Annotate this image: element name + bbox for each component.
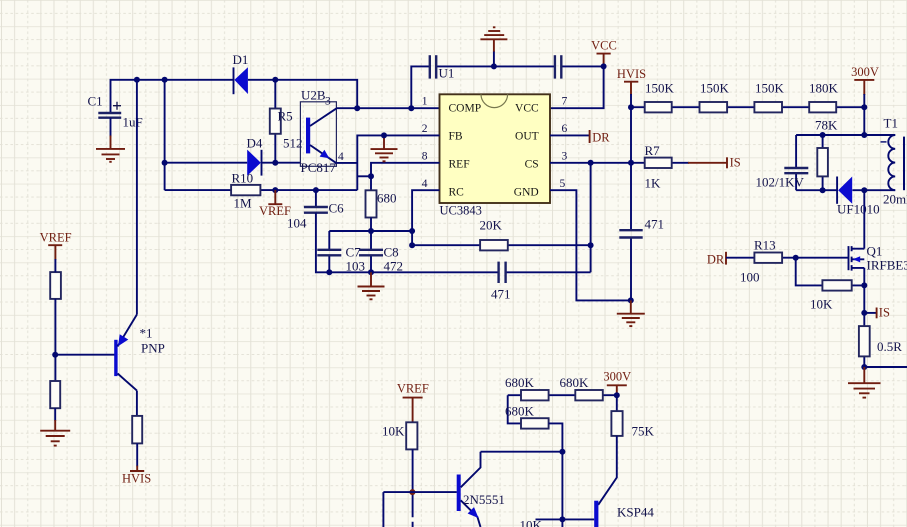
label UF1010 [837, 202, 880, 217]
label 78K [815, 118, 838, 133]
svg-text:R5: R5 [278, 109, 293, 124]
resistor R7 [645, 158, 672, 168]
junction source ground node [861, 364, 867, 370]
junction rail x164.6 [162, 77, 168, 83]
resistor 0.5R [859, 326, 870, 356]
wire GND pin route to ground [550, 190, 631, 300]
svg-text:DR: DR [592, 131, 610, 145]
label 150K first [645, 81, 675, 96]
pin number 1 [422, 96, 428, 108]
label 75K [632, 424, 655, 439]
wire HVIS vertical [630, 94, 632, 300]
resistor 150K second [700, 102, 728, 112]
label 680K second [560, 375, 590, 390]
pin number 3 U2B [325, 96, 331, 108]
label 512 [283, 136, 303, 151]
svg-text:D4: D4 [247, 136, 263, 151]
svg-text:GND: GND [514, 187, 539, 199]
pin number 2 [422, 123, 428, 135]
svg-text:VREF: VREF [397, 382, 429, 396]
junction y231 at RC vertical [409, 228, 415, 234]
junction snubber top T1 [861, 132, 867, 138]
svg-text:78K: 78K [815, 118, 838, 133]
label D1 [233, 52, 249, 67]
junction pin1 at rail corner [354, 105, 360, 111]
wire Q1 source vertical [863, 268, 865, 367]
wire 75K to KSP44 collector [598, 436, 617, 505]
label C6 [329, 201, 345, 216]
power port VREF left [40, 230, 72, 259]
junction C6 top [313, 187, 319, 193]
transistor Q1 IRFBE30 [849, 246, 865, 271]
wire base of PNP [55, 354, 114, 356]
label 472 [384, 259, 404, 274]
wire top rail from D1 to pin1 corner [248, 80, 357, 108]
wire C1 to ground [110, 118, 112, 137]
svg-text:R7: R7 [645, 143, 661, 158]
label 1K [645, 176, 662, 191]
diode UF1010 [837, 177, 852, 204]
capacitor C7 [317, 231, 341, 272]
resistor R5 [270, 80, 281, 163]
label C1 [88, 94, 103, 109]
wire pin1 line [336, 107, 439, 109]
svg-text:*1: *1 [140, 326, 153, 341]
wire 680 bottom stub [370, 218, 372, 232]
junction 10K at source [861, 282, 867, 288]
wire gate node to 10K [796, 258, 865, 286]
wire D4 line [165, 162, 301, 164]
wire 680K third to vertical [549, 423, 563, 527]
wire y231 [329, 230, 412, 232]
svg-text:R13: R13 [754, 238, 776, 253]
wire divider middle [54, 259, 56, 381]
wire snubber top [796, 134, 895, 136]
junction C7 bottom [326, 269, 332, 275]
svg-text:3: 3 [562, 151, 568, 163]
port IS right [864, 306, 890, 320]
resistor R13 [754, 253, 782, 263]
label D4 [247, 136, 263, 151]
junction HVIS at divider [628, 104, 634, 110]
IC pin label RC [449, 187, 465, 199]
svg-text:20K: 20K [480, 218, 503, 233]
wire 150K divider chain [631, 106, 864, 108]
label Q1 [867, 244, 883, 259]
junction C8 bottom ground [368, 269, 374, 275]
svg-text:KSP44: KSP44 [617, 505, 654, 520]
wire base line 2N5551 [383, 491, 456, 493]
label KSP44 [617, 505, 654, 520]
resistor 78K [817, 135, 828, 190]
resistor VREF divider lower [50, 381, 60, 408]
label R10 [232, 170, 254, 185]
junction gate node [793, 255, 799, 261]
label 1M [234, 196, 253, 211]
junction collector at vertical [559, 449, 565, 455]
wire DR to R13 to gate [726, 257, 848, 259]
junction R5 bottom / D4 cathode [272, 160, 278, 166]
svg-text:300V: 300V [603, 370, 631, 384]
power port 300V bottom [603, 370, 631, 396]
IC U1 UC3843 body [440, 94, 551, 203]
power port HVIS top [617, 67, 646, 95]
resistor R10 [231, 185, 260, 195]
junction FB ground [381, 132, 387, 138]
pin number 7 [562, 96, 568, 108]
junction on rail at PNP feed [134, 77, 140, 83]
wire U1 branch and top cap rail [411, 66, 603, 108]
resistor below PNP [132, 416, 142, 444]
svg-text:VREF: VREF [40, 230, 72, 244]
resistor 75K [611, 411, 622, 436]
junction 300V bottom node [614, 392, 620, 398]
capacitor C1 [98, 102, 121, 118]
svg-text:C1: C1 [88, 94, 103, 109]
wire 680K left link [508, 395, 521, 423]
capacitor 471 right [619, 230, 642, 237]
ground below Q1 [848, 367, 881, 398]
svg-text:FB: FB [449, 131, 463, 143]
svg-text:HVIS: HVIS [122, 471, 151, 485]
svg-text:PNP: PNP [141, 341, 165, 356]
wire from source node to right edge [864, 366, 907, 368]
label IRFBE30 [867, 258, 907, 273]
resistor 20K [480, 240, 508, 250]
label 471 lower [491, 287, 511, 302]
junction rail R5 top [272, 77, 278, 83]
resistor 680K third [521, 418, 549, 428]
svg-text:IS: IS [730, 156, 741, 170]
junction RC vertical at 20K wire [409, 242, 415, 248]
resistor 150K third [754, 102, 782, 112]
transistor Q KSP44 [594, 501, 598, 527]
svg-text:3: 3 [325, 96, 331, 108]
wire 10K to base line [412, 449, 414, 527]
junction IS at source [861, 310, 867, 316]
svg-text:U1: U1 [439, 66, 455, 81]
svg-text:2N5551: 2N5551 [463, 492, 505, 507]
svg-text:T1: T1 [884, 116, 898, 131]
resistor 10K bottom [406, 422, 417, 449]
svg-text:300V: 300V [851, 65, 879, 79]
svg-text:103: 103 [346, 259, 366, 274]
label UC3843 [440, 204, 482, 218]
junction base node maroon [409, 489, 415, 495]
svg-text:OUT: OUT [515, 131, 539, 143]
svg-text:REF: REF [449, 159, 470, 171]
svg-text:1K: 1K [645, 176, 662, 191]
svg-text:150K: 150K [755, 81, 785, 96]
svg-text:IS: IS [879, 306, 890, 320]
wire 680K series row [508, 394, 617, 396]
svg-text:1: 1 [422, 96, 428, 108]
svg-text:680K: 680K [560, 375, 590, 390]
capacitor right of ground [555, 55, 561, 78]
label 680K first [505, 375, 535, 390]
label 0.5R [877, 339, 902, 354]
IC pin label VCC [515, 103, 539, 115]
svg-text:COMP: COMP [449, 103, 482, 115]
svg-text:0.5R: 0.5R [877, 339, 902, 354]
ground right of UC3843 [617, 300, 645, 326]
svg-text:680: 680 [377, 191, 397, 206]
label 10K gate [810, 297, 833, 312]
ground below C1 [96, 136, 125, 162]
transformer T1 primary [881, 135, 905, 190]
wire 2N5551 collector line [481, 451, 563, 453]
wire CS pin line to R7 and IS [550, 162, 727, 164]
label 180K [809, 81, 839, 96]
svg-text:VCC: VCC [591, 39, 617, 53]
IC pin label OUT [515, 131, 539, 143]
svg-text:8: 8 [422, 151, 428, 163]
wire jog at y176 [357, 175, 371, 177]
wire vertical feed to PNP [136, 80, 138, 315]
wire C6 bottom to ground rail [316, 213, 591, 273]
junction R10 right / VREF [272, 187, 278, 193]
junction snubber top 78K [820, 132, 826, 138]
svg-text:102/1KV: 102/1KV [756, 175, 805, 190]
capacitor C6 [304, 190, 328, 213]
junction snubber bottom T1 [861, 187, 867, 193]
ground on FB line [371, 135, 398, 161]
label 680K third [505, 404, 535, 419]
svg-text:IRFBE30: IRFBE30 [867, 258, 907, 273]
svg-text:150K: 150K [645, 81, 675, 96]
svg-text:C8: C8 [384, 245, 399, 260]
resistor 680K second [575, 390, 603, 400]
svg-text:DR: DR [707, 253, 725, 267]
junction D4 line at left vertical [162, 160, 168, 166]
svg-text:PC817: PC817 [301, 160, 337, 175]
IC pin label REF [449, 159, 470, 171]
svg-text:1uF: 1uF [123, 115, 143, 130]
wire base tail down [382, 492, 384, 527]
svg-text:512: 512 [283, 136, 303, 151]
junction divider base node [52, 352, 58, 358]
svg-text:UC3843: UC3843 [440, 204, 482, 218]
label 150K second [700, 81, 730, 96]
diode D1 [234, 67, 248, 94]
svg-text:2: 2 [422, 123, 428, 135]
label 1uF [123, 115, 143, 130]
wire RC pin to 20K [412, 190, 439, 245]
svg-text:4: 4 [338, 151, 344, 163]
pin number 4 [422, 178, 428, 190]
IC pin label GND [514, 187, 539, 199]
wire 300V node to 75K [616, 395, 618, 411]
svg-text:HVIS: HVIS [617, 67, 646, 81]
port DR left [707, 252, 726, 267]
svg-text:104: 104 [287, 216, 307, 231]
label 150K third [755, 81, 785, 96]
capacitor C8 [359, 231, 383, 272]
label PC817 [301, 160, 337, 175]
svg-text:6: 6 [562, 123, 568, 135]
junction CS at vertical [588, 160, 594, 166]
transistor Q 2N5551 [457, 452, 481, 527]
diode D4 [247, 150, 261, 176]
pin number 3 [562, 151, 568, 163]
svg-text:471: 471 [645, 217, 665, 232]
power port VREF upper [259, 190, 291, 218]
label C8 [384, 245, 399, 260]
svg-text:RC: RC [449, 187, 465, 199]
label C7 [346, 245, 362, 260]
wire R10 line [165, 189, 358, 191]
svg-text:100: 100 [740, 270, 760, 285]
label 104 [287, 216, 307, 231]
junction VCC [601, 63, 607, 69]
junction divider right [861, 104, 867, 110]
svg-text:10K: 10K [382, 424, 405, 439]
svg-text:150K: 150K [700, 81, 730, 96]
svg-text:10K: 10K [810, 297, 833, 312]
label 471 right [645, 217, 665, 232]
svg-text:20mH: 20mH [883, 192, 907, 207]
wire T1 to Q1 drain [863, 190, 865, 249]
junction 680 bottom [368, 228, 374, 234]
svg-text:VCC: VCC [515, 103, 539, 115]
label 10K bottom [382, 424, 405, 439]
wire left vertical x164.6 [164, 80, 166, 190]
svg-text:10K: 10K [520, 518, 543, 527]
transistor Q PNP [114, 315, 137, 391]
svg-text:180K: 180K [809, 81, 839, 96]
svg-text:75K: 75K [632, 424, 655, 439]
svg-text:1M: 1M [234, 196, 253, 211]
label PNP [141, 341, 165, 356]
resistor 680K first [521, 390, 549, 400]
svg-text:U2B: U2B [301, 88, 326, 103]
wire KSP44 base line [536, 518, 595, 520]
label *1 [140, 326, 153, 341]
wire resistor to HVIS port [136, 443, 138, 466]
svg-text:CS: CS [525, 159, 539, 171]
wire snubber bottom [796, 189, 895, 191]
label R7 [645, 143, 661, 158]
label 20mH [883, 192, 907, 207]
pin number 4 U2B [338, 151, 344, 163]
junction zigzag 680 top [368, 173, 374, 179]
wire REF to 680 resistor [371, 163, 440, 191]
wire snubber left with cap gap [795, 135, 797, 190]
wire OUT pin to DR [550, 134, 590, 136]
optocoupler U2B PC817 [300, 102, 336, 167]
wire U2B pin4 to zigzag [336, 162, 357, 164]
svg-text:Q1: Q1 [867, 244, 883, 259]
ground below C7 C8 rail [358, 272, 385, 299]
pin number 6 [562, 123, 568, 135]
label 10K clipped [520, 518, 543, 527]
ground below divider [40, 420, 70, 446]
junction CS at HVIS vertical [628, 160, 634, 166]
capacitor U1 [430, 55, 436, 78]
svg-text:UF1010: UF1010 [837, 202, 880, 217]
svg-text:471: 471 [491, 287, 511, 302]
wire CS vertical [590, 163, 592, 272]
resistor VREF divider upper [50, 272, 61, 299]
port DR at OUT [590, 130, 611, 145]
resistor 10K gate [822, 280, 851, 290]
junction base KSP44 [559, 516, 565, 522]
label U2B [301, 88, 326, 103]
capacitor 471 lower [499, 262, 506, 283]
port IS on R7 line [727, 156, 741, 170]
IC pin label COMP [449, 103, 482, 115]
svg-text:D1: D1 [233, 52, 249, 67]
svg-text:472: 472 [384, 259, 404, 274]
junction 20K right at CS vertical [588, 242, 594, 248]
label R13 [754, 238, 776, 253]
label 103 [346, 259, 366, 274]
label 20K [480, 218, 503, 233]
svg-text:C7: C7 [346, 245, 362, 260]
wire FB to zigzag vertical [357, 135, 439, 190]
svg-text:7: 7 [562, 96, 568, 108]
svg-text:R10: R10 [232, 170, 254, 185]
label 102/1KV [756, 175, 805, 190]
svg-text:680K: 680K [505, 375, 535, 390]
pin number 8 [422, 151, 428, 163]
junction ground node right [628, 297, 634, 303]
IC pin label FB [449, 131, 463, 143]
svg-text:5: 5 [560, 178, 566, 190]
svg-text:4: 4 [422, 178, 428, 190]
label U1 [439, 66, 455, 81]
wire divider to ground [54, 408, 56, 421]
power port VCC [591, 39, 617, 67]
resistor 150K first [645, 102, 672, 112]
label R5 [278, 109, 293, 124]
wire 20K line [412, 244, 590, 246]
wire PNP collector down [136, 391, 138, 416]
resistor 180K [809, 102, 836, 112]
wire top rail from C1 to D1 [111, 80, 234, 113]
junction snubber bottom 78K [820, 187, 826, 193]
label 100 [740, 270, 760, 285]
power port VREF bottom [397, 382, 429, 423]
resistor 680 [366, 190, 377, 217]
svg-text:680K: 680K [505, 404, 535, 419]
power port HVIS left [122, 466, 151, 486]
label 680 [377, 191, 397, 206]
power port 300V top [851, 65, 879, 95]
label T1 [884, 116, 898, 131]
capacitor 102/1KV [784, 168, 808, 173]
junction pin1 at U1 branch [408, 105, 414, 111]
pin number 5 [560, 178, 566, 190]
svg-text:C6: C6 [329, 201, 345, 216]
inverted ground above top rail [480, 27, 507, 66]
label 2N5551 [463, 492, 505, 507]
IC pin label CS [525, 159, 539, 171]
wire 300V to divider and snubber [863, 94, 865, 135]
junction top rail at inverted ground [491, 63, 497, 69]
